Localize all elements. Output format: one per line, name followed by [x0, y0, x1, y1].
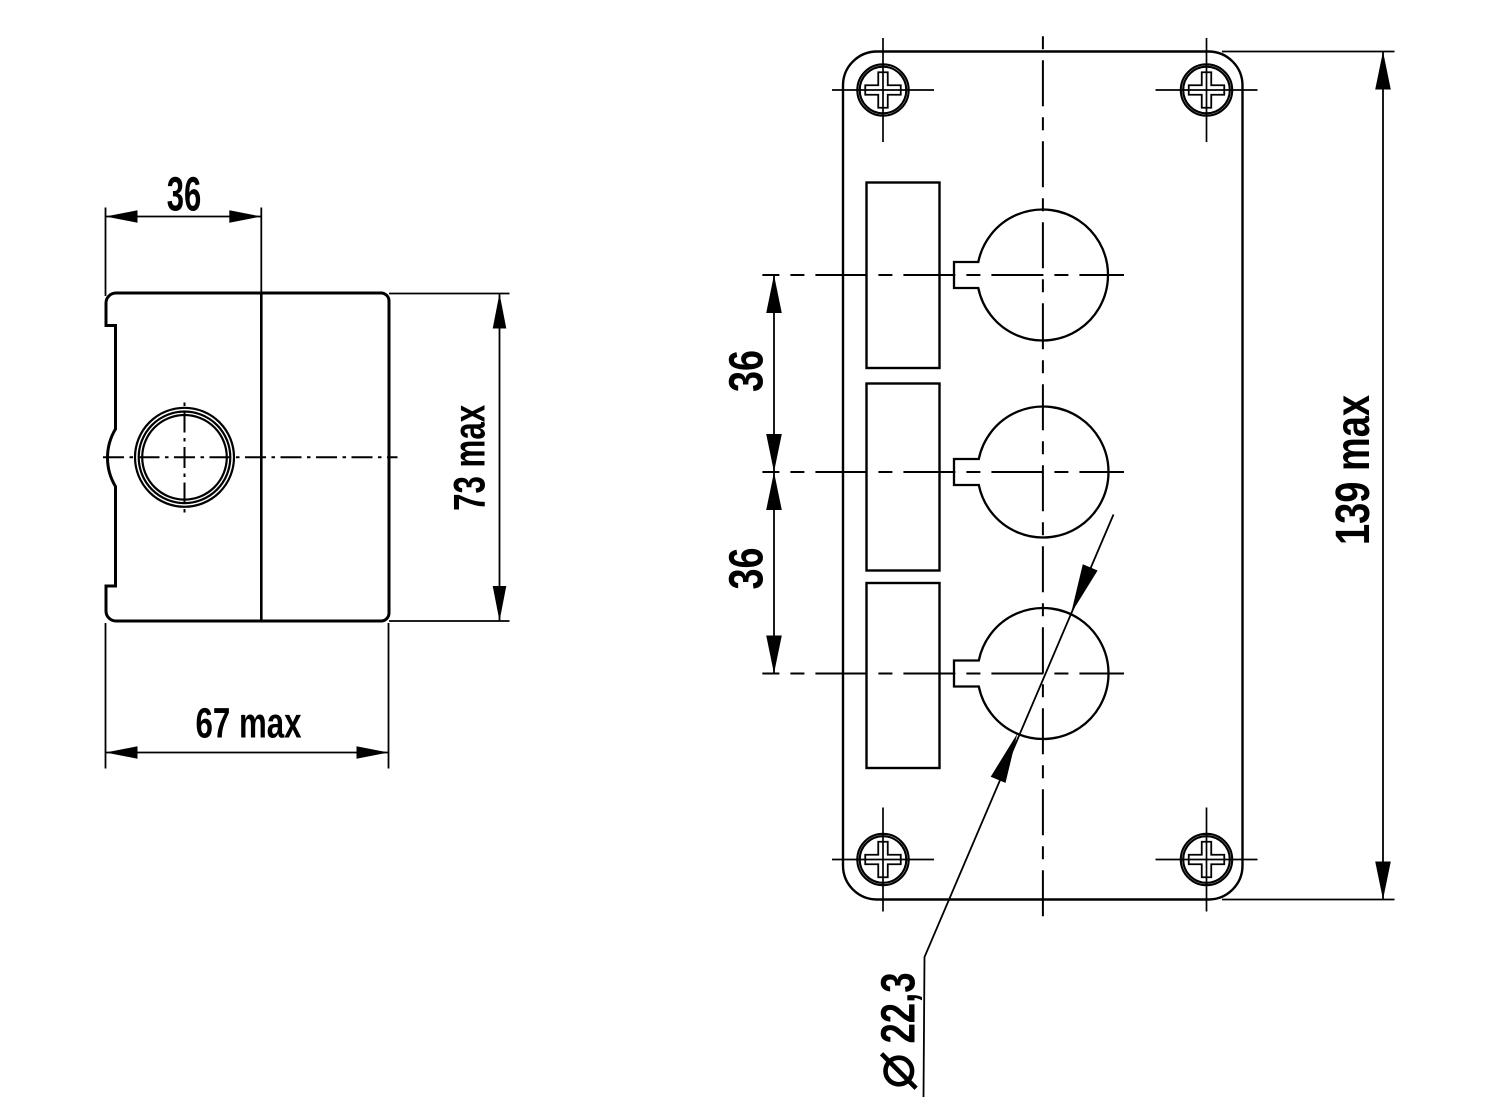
front view vertical centerline — [1042, 36, 1044, 917]
leader line for hole diameter — [924, 515, 1114, 1098]
screw top-left — [832, 38, 934, 142]
dim 73 max top extension line — [389, 293, 510, 295]
dim 36 dimension line — [106, 216, 262, 218]
dim 36 left arrow — [106, 210, 138, 222]
hole 2 horizontal centerline — [762, 471, 1124, 473]
pushbutton hole 1 with keyway — [954, 210, 1108, 341]
side view vertical crosshair centerline — [184, 400, 186, 517]
svg-text:139 max: 139 max — [1327, 395, 1380, 545]
dim 36 pitch 1 up arrow — [766, 275, 782, 313]
side view gland boss middle ring — [139, 412, 231, 504]
svg-text:36: 36 — [721, 548, 774, 590]
dim 73 max bottom arrow — [493, 586, 507, 621]
side view horizontal centerline — [102, 456, 398, 458]
svg-text:73 max: 73 max — [446, 405, 495, 511]
dim 67 max dimension line — [106, 752, 389, 754]
dim 139 max top arrow — [1375, 52, 1391, 90]
dim 36 right extension line — [260, 208, 262, 294]
side view gland boss outer ring — [135, 408, 234, 507]
dim 139 max bottom arrow — [1375, 862, 1391, 900]
side view body outline — [106, 293, 389, 621]
dim 67 max right extension line — [388, 623, 390, 769]
svg-text:22,3: 22,3 — [873, 973, 926, 1044]
hole 1 horizontal centerline — [762, 274, 1124, 276]
leader arrow lower — [991, 734, 1018, 783]
legend plate rectangle 2 — [867, 384, 940, 571]
dim 67 max left arrow — [106, 746, 138, 758]
pushbutton hole 2 with keyway — [954, 407, 1108, 538]
svg-text:67 max: 67 max — [196, 701, 302, 748]
side view lid divider line — [260, 293, 263, 621]
dim 67 max right arrow — [357, 746, 389, 758]
dim 36 pitch 2 dimension line — [773, 472, 775, 674]
diameter symbol slash — [882, 1054, 917, 1089]
side view gland boss inner ring — [142, 415, 227, 500]
screw bottom-right — [1156, 808, 1258, 912]
diameter symbol circle — [886, 1058, 913, 1085]
dim 36 pitch 2 up arrow — [766, 472, 782, 510]
dim 73 max bottom extension line — [389, 620, 510, 622]
dim 36 left extension line — [105, 208, 107, 297]
dim 36 right arrow — [229, 210, 261, 222]
dim 73 max top arrow — [493, 294, 507, 329]
dim 139 max top extension line — [1222, 51, 1395, 53]
dim 73 max dimension line — [499, 294, 501, 622]
svg-text:36: 36 — [167, 169, 202, 222]
hole 3 horizontal centerline — [762, 673, 1124, 675]
legend plate rectangle 1 — [867, 183, 940, 369]
screw bottom-left — [832, 808, 934, 912]
legend plate rectangle 3 — [867, 583, 940, 768]
leader arrow upper — [1071, 564, 1098, 613]
dim 36 pitch 1 down arrow — [766, 434, 782, 472]
dim 139 max dimension line — [1382, 52, 1384, 900]
front view panel outline — [843, 52, 1243, 900]
dim 36 pitch 1 dimension line — [773, 275, 775, 472]
svg-text:36: 36 — [721, 350, 774, 392]
dim 67 max left extension line — [105, 623, 107, 769]
pushbutton hole 3 with keyway — [954, 608, 1108, 739]
dim 139 max bottom extension line — [1222, 899, 1395, 901]
screw top-right — [1156, 38, 1258, 142]
dim 36 pitch 2 down arrow — [766, 636, 782, 674]
